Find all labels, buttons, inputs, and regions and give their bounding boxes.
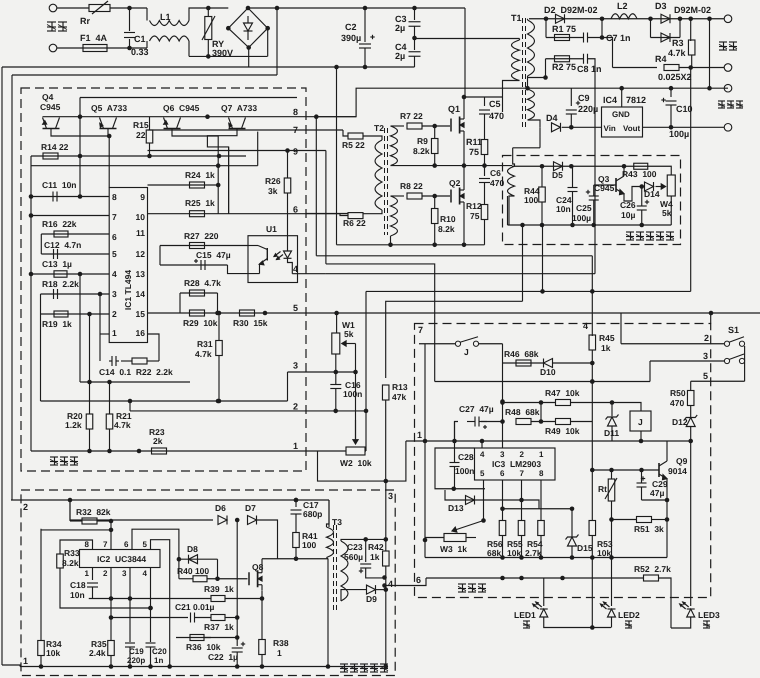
wire <box>89 314 91 382</box>
wire <box>531 421 556 423</box>
wire <box>540 403 542 422</box>
resistor R32 82k <box>82 518 97 524</box>
wire <box>670 196 672 225</box>
junction <box>217 399 222 404</box>
svg-text:T1: T1 <box>511 13 522 23</box>
wire <box>521 500 523 521</box>
wire <box>464 8 466 97</box>
label 68k <box>487 548 501 558</box>
label R32 82k <box>76 507 111 517</box>
junction <box>78 114 210 119</box>
wire <box>414 8 416 20</box>
wire <box>80 97 297 99</box>
svg-text:Rt: Rt <box>598 484 607 494</box>
label R30 15k <box>233 318 268 328</box>
label 470 <box>490 178 504 188</box>
label R12 <box>466 201 482 211</box>
label 1k <box>370 552 380 562</box>
aux ground rail <box>20 666 386 668</box>
optocoupler U1 box <box>248 236 298 283</box>
mosfet Q2 <box>451 184 464 208</box>
label C9 <box>578 93 590 103</box>
wire <box>385 578 387 667</box>
pin6 out wire <box>148 213 349 215</box>
protection mid rail <box>425 557 667 559</box>
U1 pin4 wire <box>292 273 326 275</box>
svg-text:10n: 10n <box>556 204 571 214</box>
wire <box>464 96 503 98</box>
svg-text:LED1: LED1 <box>514 610 536 620</box>
resistor R20 1.2k <box>86 414 93 429</box>
svg-text:5: 5 <box>480 469 485 478</box>
junction <box>388 243 466 248</box>
resistor R37 1k <box>211 615 225 621</box>
label R27 220 <box>184 231 219 241</box>
svg-text:C5: C5 <box>489 99 501 109</box>
inductor L2 <box>611 14 637 19</box>
wire <box>434 154 436 166</box>
wire <box>248 48 250 68</box>
capacitor C6 470 <box>479 179 490 183</box>
wire <box>612 519 638 521</box>
junction <box>217 311 222 316</box>
U1 led <box>284 251 292 258</box>
label 10n <box>556 204 571 214</box>
svg-text:3: 3 <box>293 361 298 371</box>
transformer T3 secondary <box>341 541 348 601</box>
svg-text:LED2: LED2 <box>618 610 640 620</box>
wire <box>385 539 387 551</box>
diode D3b <box>661 33 670 42</box>
resistor R40 100 <box>193 576 207 582</box>
wire <box>31 196 109 198</box>
T1 winding lead to D4 <box>528 120 541 127</box>
wire <box>110 7 147 9</box>
aux pin3 wire <box>385 481 387 539</box>
capacitor C20 1n <box>146 643 156 647</box>
label 470 <box>670 398 684 408</box>
junction <box>665 498 670 503</box>
wire <box>363 136 382 140</box>
label C6 <box>490 168 501 178</box>
resistor R7 22 <box>407 123 422 129</box>
IC3 pin6 wire <box>502 480 504 509</box>
resistor R22 2.2k <box>132 358 147 364</box>
svg-text:68k: 68k <box>487 548 501 558</box>
svg-text:6: 6 <box>293 205 298 215</box>
wire <box>484 114 486 139</box>
capacitor C25 100u <box>586 190 599 200</box>
svg-text:C13 1µ: C13 1µ <box>42 259 72 269</box>
label 100u <box>572 213 591 223</box>
junction <box>432 194 437 199</box>
junction <box>590 379 595 384</box>
label T1 <box>511 13 522 23</box>
label 5k <box>344 329 354 339</box>
junction <box>39 664 331 669</box>
junction <box>500 576 565 581</box>
wire <box>207 8 209 17</box>
label C22 1u <box>208 652 238 662</box>
potentiometer W2 10k <box>346 447 365 455</box>
junction <box>688 65 693 70</box>
svg-text:R24 1k: R24 1k <box>185 170 215 180</box>
junction <box>109 519 114 533</box>
resistor R46 68k <box>516 360 531 366</box>
svg-text:16: 16 <box>136 328 146 338</box>
svg-text:C945: C945 <box>40 102 61 112</box>
wire <box>129 598 131 642</box>
bridge rectifier diamond <box>228 8 267 48</box>
Rr slash <box>92 1 108 14</box>
label 390u <box>341 33 361 43</box>
resistor R1 75 <box>555 35 570 41</box>
switch J <box>455 337 478 347</box>
wire <box>189 55 268 57</box>
label T2 <box>374 123 384 133</box>
pin4 protection feed <box>591 256 593 336</box>
wire <box>207 578 248 580</box>
resistor R54 2.7k <box>538 521 545 536</box>
IC4 GND lead <box>621 88 623 107</box>
mosfet Q1 <box>451 113 464 137</box>
resistor R3 4.7k <box>688 40 695 55</box>
wire <box>341 539 366 541</box>
label R39 1k <box>204 584 234 594</box>
junction <box>334 65 367 70</box>
svg-text:2: 2 <box>112 309 117 319</box>
label R41 <box>302 531 318 541</box>
label 47u <box>650 488 664 498</box>
driver pin 2 <box>293 402 298 412</box>
svg-text:C18: C18 <box>70 580 86 590</box>
label R49 10k <box>545 426 580 436</box>
wire <box>276 8 278 75</box>
wire <box>92 587 94 599</box>
label 过载取样板 <box>626 232 674 240</box>
label C7 1n <box>606 33 631 43</box>
svg-text:IC4: IC4 <box>603 95 617 105</box>
wire <box>744 346 746 381</box>
svg-text:4: 4 <box>143 569 148 578</box>
svg-text:IC3 LM2903: IC3 LM2903 <box>492 459 541 469</box>
wire <box>570 402 612 404</box>
svg-text:R25 1k: R25 1k <box>185 198 215 208</box>
label LED2 <box>618 610 640 620</box>
Q3 base wire <box>594 184 616 186</box>
wire <box>691 55 693 68</box>
LED1 green <box>533 602 548 617</box>
aux feed wire <box>11 499 329 501</box>
svg-text:Q1: Q1 <box>448 104 460 114</box>
fan terminal <box>724 124 732 132</box>
resistor R9 8.2k <box>431 139 438 154</box>
svg-text:L2: L2 <box>617 1 628 11</box>
svg-text:R51 3k: R51 3k <box>634 524 664 534</box>
label 1 <box>23 656 28 666</box>
wire <box>41 400 288 402</box>
wire <box>228 265 260 274</box>
label Q4 <box>42 92 54 102</box>
junction <box>590 625 595 630</box>
wire <box>146 41 148 48</box>
label 2u <box>395 51 405 61</box>
wire <box>149 143 151 156</box>
resistor R13 47k <box>382 385 389 400</box>
svg-text:W3 1k: W3 1k <box>440 544 467 554</box>
wire <box>236 652 238 667</box>
U1 phototransistor <box>248 246 267 274</box>
label D5 <box>552 170 563 180</box>
svg-text:R33: R33 <box>64 548 80 558</box>
label D9 <box>366 594 377 604</box>
resistor R10 8.2k <box>431 209 438 224</box>
comparator output wire <box>503 508 573 510</box>
svg-text:1: 1 <box>23 656 28 666</box>
wire <box>588 38 613 68</box>
label D6 <box>215 503 226 513</box>
wire <box>225 617 237 619</box>
svg-text:C19: C19 <box>129 647 144 656</box>
transistor Q4 <box>43 118 60 133</box>
label W1 <box>342 320 355 330</box>
label T3 <box>332 517 342 527</box>
wire <box>217 559 219 579</box>
resistor R35 2.4k <box>108 641 115 656</box>
label 绿 <box>523 621 530 628</box>
label R16 22k <box>42 219 77 229</box>
RY slash <box>202 16 215 40</box>
svg-text:GND: GND <box>612 110 630 119</box>
label 3k <box>268 186 278 196</box>
driver pin 4 <box>293 264 298 274</box>
label R52 2.7k <box>634 564 671 574</box>
resistor R45 1k <box>589 335 596 350</box>
svg-text:6: 6 <box>416 575 421 585</box>
svg-text:0.025X2: 0.025X2 <box>658 72 692 82</box>
sampling to R13 wire <box>386 301 523 378</box>
label 1.2k <box>65 420 82 430</box>
label 7 <box>418 325 423 335</box>
diode D10 <box>544 359 553 368</box>
wire <box>434 126 436 139</box>
junction <box>216 163 221 187</box>
wire <box>57 47 84 49</box>
wire <box>40 656 42 667</box>
label 100 <box>524 195 538 205</box>
output terminal 2 <box>724 64 732 72</box>
label R34 <box>46 639 62 649</box>
svg-text:C15 47µ: C15 47µ <box>196 250 231 260</box>
wire <box>335 389 337 411</box>
label R20 <box>67 411 83 421</box>
wire <box>225 598 262 600</box>
wire <box>97 520 111 522</box>
wire <box>611 617 613 628</box>
svg-text:R31: R31 <box>197 339 213 349</box>
svg-text:100n: 100n <box>455 466 474 476</box>
pin6 out wire b <box>306 213 348 215</box>
wire <box>341 590 367 601</box>
Q1 drain wire <box>463 97 465 113</box>
svg-text:2.4k: 2.4k <box>89 648 106 658</box>
wire <box>385 400 387 481</box>
resistor R52 2.7k <box>644 575 659 581</box>
svg-text:J: J <box>464 347 469 357</box>
wire <box>670 105 672 127</box>
U1 led top lead <box>287 236 289 251</box>
junction <box>98 292 103 297</box>
wire <box>690 427 692 442</box>
wire <box>527 19 529 20</box>
wire <box>364 48 366 67</box>
junction <box>260 596 265 601</box>
junction <box>363 537 388 542</box>
svg-text:1: 1 <box>277 648 282 658</box>
junction <box>520 223 644 228</box>
pin2 wire <box>41 313 110 315</box>
svg-text:C6: C6 <box>490 168 501 178</box>
junction <box>148 606 153 611</box>
label R21 <box>116 411 132 421</box>
capacitor R18 2.2k <box>54 289 58 299</box>
pin2 bus <box>130 410 366 412</box>
svg-text:3: 3 <box>703 351 708 361</box>
fuse F1 <box>83 45 107 52</box>
svg-text:47µ: 47µ <box>650 488 664 498</box>
svg-text:R7 22: R7 22 <box>400 111 423 121</box>
IC1 pin 16 <box>136 328 146 338</box>
junction <box>609 468 644 473</box>
wire <box>571 546 573 558</box>
label C2 <box>345 22 357 32</box>
wire <box>218 313 220 341</box>
svg-text:R29 10k: R29 10k <box>183 318 218 328</box>
svg-text:C11 10n: C11 10n <box>42 180 77 190</box>
IC3 pin5 wire <box>483 480 485 521</box>
capacitor C5 470 <box>479 110 490 114</box>
label R13 <box>392 382 408 392</box>
wiper wire <box>355 344 357 442</box>
svg-text:R32 82k: R32 82k <box>76 507 111 517</box>
label D3 <box>655 1 667 11</box>
svg-text:Q9: Q9 <box>676 456 688 466</box>
transistor Q5 <box>100 118 117 133</box>
svg-text:C23: C23 <box>347 542 363 552</box>
svg-text:C26: C26 <box>620 200 636 210</box>
label 红 <box>703 621 710 628</box>
wire <box>690 68 692 292</box>
capacitor C22 1u <box>232 642 246 652</box>
wire <box>79 117 81 156</box>
wire <box>150 647 152 667</box>
wire <box>414 26 416 50</box>
wire <box>454 422 456 449</box>
label 3 <box>388 491 393 501</box>
label J <box>464 347 469 357</box>
svg-text:R1 75: R1 75 <box>552 24 576 34</box>
wire <box>611 426 613 441</box>
wire <box>236 618 238 647</box>
label 3 <box>703 351 708 361</box>
label R10 <box>440 214 456 224</box>
svg-text:10n: 10n <box>70 590 85 600</box>
svg-text:4: 4 <box>112 269 117 279</box>
shunt R4 0.025X2 <box>664 65 679 71</box>
T2 secondary bottom <box>391 196 398 236</box>
svg-text:C12 4.7n: C12 4.7n <box>44 240 81 250</box>
svg-text:10µ: 10µ <box>621 210 635 220</box>
Q3 collector lead <box>623 166 625 172</box>
IC1 pin 8 <box>112 192 117 202</box>
wire <box>336 313 338 333</box>
unused <box>0 0 1 1</box>
diode D7 <box>248 516 257 525</box>
svg-text:8.2k: 8.2k <box>62 558 79 568</box>
label IC4 <box>603 95 617 105</box>
capacitor C19 220p <box>125 643 135 647</box>
label Q6 C945 <box>163 103 200 113</box>
Q3 emitter wire <box>624 187 642 202</box>
wire <box>415 38 520 40</box>
svg-text:R43 100: R43 100 <box>622 169 657 179</box>
wire <box>218 356 220 402</box>
capacitor C26 10u <box>637 200 649 210</box>
label D10 <box>540 367 556 377</box>
wire <box>543 578 545 606</box>
driver pin 9 <box>293 147 298 157</box>
wire <box>484 97 486 106</box>
junction <box>68 498 299 503</box>
wire <box>679 19 681 38</box>
wire <box>261 599 263 640</box>
svg-text:10k: 10k <box>597 548 611 558</box>
wire <box>455 422 459 442</box>
wire <box>690 19 692 41</box>
label R6 22 <box>343 218 366 228</box>
wire <box>502 509 504 521</box>
capacitor C3 2u <box>409 22 421 27</box>
bus wire <box>366 290 691 292</box>
label D2 D92M-02 <box>544 5 598 15</box>
svg-text:C945: C945 <box>594 183 615 193</box>
wire <box>89 598 211 600</box>
wire <box>611 501 613 520</box>
capacitor C21 0.01u <box>191 613 195 623</box>
pin5 wire <box>41 253 109 255</box>
diode D5 <box>554 162 563 171</box>
svg-text:R42: R42 <box>368 542 384 552</box>
transistor Q6 <box>164 118 181 133</box>
wire <box>40 234 42 254</box>
svg-text:R9: R9 <box>417 136 428 146</box>
junction <box>215 576 220 581</box>
wire <box>365 539 367 562</box>
wire <box>593 185 595 196</box>
wire <box>110 656 112 667</box>
relay J box <box>630 411 651 431</box>
wire <box>146 8 148 21</box>
label RY <box>212 39 224 49</box>
svg-text:390V: 390V <box>212 48 233 58</box>
wire <box>454 467 456 489</box>
label R26 <box>265 176 281 186</box>
IC2 pin 5 <box>143 540 148 549</box>
label C4 <box>395 42 407 52</box>
R24 wire <box>148 184 219 186</box>
svg-text:8: 8 <box>293 107 298 117</box>
diode D13 <box>466 496 475 505</box>
